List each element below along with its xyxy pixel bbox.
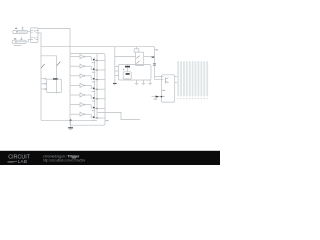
op-amp U6 output bubble (84, 104, 85, 105)
node bus junction 1 (96, 60, 98, 62)
label V1 (15, 28, 17, 29)
node bus junction 6 (96, 108, 98, 110)
wire bottom rail (41, 119, 97, 121)
wire block C to speaker upper (175, 76, 178, 78)
wire U7 output (85, 113, 91, 115)
block D body (47, 79, 62, 93)
transistor Q3 emitter arrow (93, 78, 95, 80)
wire staircase to right (97, 112, 140, 119)
op-amp U1 output bubble (84, 56, 85, 57)
label Q5 (92, 101, 95, 102)
block B body (119, 65, 152, 81)
symbol above V1 (22, 27, 24, 29)
block A switch marks (136, 56, 139, 64)
wire ground stem (70, 120, 72, 127)
op-amp U5 input wire (70, 94, 80, 96)
wire relay top pin to IC corner (38, 28, 70, 53)
relay K1 pins (31, 30, 39, 39)
wire Q5 base (91, 95, 92, 98)
op-amp U2 output bubble (84, 66, 85, 67)
label Q7 (92, 120, 95, 121)
transistor block C body (161, 75, 174, 102)
IC U0 body (70, 54, 105, 126)
wire Q3 base (91, 76, 92, 79)
op-amp U5 (80, 93, 84, 97)
capacitor C1 top plate (125, 66, 130, 68)
op-amp U6 (80, 103, 84, 107)
resistor R2 above block A (134, 49, 139, 52)
wire block A right (144, 56, 155, 58)
op-amp U3 (80, 74, 84, 78)
relay K1 body (31, 28, 39, 43)
wire U6 output (85, 104, 91, 106)
block D contact circle 3 (45, 88, 46, 89)
wire Q3 to bus (94, 79, 105, 81)
wire to block C upper pin (155, 76, 164, 78)
op-amp U1 (80, 55, 84, 59)
block D pin tick 3 (41, 88, 45, 90)
svg-text:LAB: LAB (18, 159, 27, 164)
op-amp U7 input wire (70, 113, 80, 115)
wire top rail branch (41, 46, 155, 48)
speaker SP1 hatched body (177, 61, 179, 97)
wire relay right pin long vertical (38, 33, 41, 120)
transistor Q2 emitter arrow (93, 68, 95, 70)
transistor Q9 symbol (165, 77, 168, 83)
wire Q7 to bus (94, 117, 105, 119)
arrow into block C (156, 96, 160, 98)
ground GND3 (135, 80, 138, 83)
wire Q6 to bus (94, 107, 105, 109)
transistor Q1 emitter arrow (93, 59, 95, 61)
switch SW1 blade (41, 64, 45, 68)
wire V2 internal (17, 41, 25, 43)
wire U3 output (85, 75, 91, 77)
footer credit text (43, 154, 86, 162)
node V2 terminal dot (15, 41, 16, 42)
op-amp U4 input wire (70, 84, 80, 86)
label Q8 (152, 56, 155, 58)
wire block A left (115, 56, 136, 58)
wire R2 stem (136, 47, 138, 49)
ground GND2 (113, 83, 117, 85)
op-amp U7 (80, 112, 84, 116)
op-amp U3 input wire (70, 75, 80, 77)
wire Q4 to bus (94, 88, 105, 90)
wire right vertical (154, 47, 156, 80)
svg-text:http://circuitlab.com/c/7ma59v: http://circuitlab.com/c/7ma59v (43, 158, 86, 162)
wire U1 output (85, 56, 91, 58)
block D pin tick 2 (41, 83, 45, 85)
wire V1 internal (18, 31, 26, 33)
wire U2 output (85, 65, 91, 67)
battery B1 frame (123, 72, 131, 79)
transistor Q6 emitter arrow (93, 107, 95, 109)
wire Q6 base (91, 105, 92, 108)
op-amp U4 (80, 83, 84, 87)
ground GND1 (68, 127, 73, 129)
label Q6 (92, 110, 95, 111)
node bus junction 5 (96, 98, 98, 100)
block A body (136, 52, 144, 65)
op-amp U3 output bubble (84, 75, 85, 76)
wire transistor chain vertical (93, 57, 95, 118)
wire into block C base (152, 96, 162, 98)
transistor Q4 emitter arrow (93, 87, 95, 89)
op-amp U5 output bubble (84, 94, 85, 95)
wire branch to switch column (41, 56, 57, 94)
wire C1 stem (127, 65, 129, 81)
op-amp U7 output bubble (84, 114, 85, 115)
wire Q2 base (91, 66, 92, 69)
label Q3 (92, 81, 95, 82)
op-amp U4 output bubble (84, 85, 85, 86)
symbol above V2 (20, 37, 22, 39)
CircuitLab logo (8, 154, 31, 164)
voltage source V2 (12, 40, 26, 43)
node bus junction 2 (96, 69, 98, 71)
label C2 (155, 49, 158, 50)
op-amp U1 input wire (70, 56, 80, 58)
node bus junction 7 (96, 117, 98, 119)
label R bottom (105, 120, 109, 121)
wire collector bus (96, 54, 98, 119)
wire Q7 base (91, 114, 92, 117)
ground GND4 (142, 80, 145, 83)
wire Q5 to bus (94, 98, 105, 100)
wire V1 to relay (27, 31, 30, 33)
label Q2 (92, 72, 95, 73)
ground GND5 (149, 80, 152, 83)
node bus junction 4 (96, 88, 98, 90)
label inside block C (162, 90, 164, 91)
wire Q4 base (91, 85, 92, 88)
switch SW2 blade (57, 62, 61, 66)
footer bar (0, 151, 220, 165)
label V2 (14, 38, 16, 39)
wire U5 output (85, 94, 91, 96)
wire Q1 base (91, 57, 92, 60)
battery B1 plate (126, 73, 130, 75)
label under V2 (14, 44, 22, 47)
block D pin tick 1 (41, 78, 45, 80)
wire Q1 to bus (94, 59, 105, 61)
node bus junction 3 (96, 79, 98, 81)
node V1 terminal dot (16, 31, 17, 32)
wire Q2 to bus (94, 69, 105, 71)
label Q4 (92, 91, 95, 92)
block B pin ticks (115, 66, 119, 75)
block D contact circle 2 (45, 83, 46, 84)
label under arrow (154, 99, 158, 100)
op-amp U6 input wire (70, 104, 80, 106)
capacitor C2 plates (153, 64, 156, 65)
wire vertical to block B (114, 47, 116, 83)
wire U4 output (85, 84, 91, 86)
transistor Q5 emitter arrow (93, 97, 95, 99)
wire V2 to relay (26, 40, 31, 42)
op-amp U2 input wire (70, 65, 80, 67)
label Q1 (92, 62, 95, 63)
block D contact circle 1 (45, 78, 46, 79)
tick right of column (57, 78, 58, 81)
label right of junction (162, 96, 164, 97)
wire to block C lower pin (155, 78, 164, 80)
op-amp U2 (80, 64, 84, 68)
transistor Q7 emitter arrow (93, 116, 95, 118)
node rail junction (70, 119, 72, 121)
plus mark C1 (123, 69, 125, 71)
wire block C to speaker lower (175, 82, 178, 84)
voltage source V1 (13, 30, 27, 33)
label block D (53, 78, 58, 80)
node block C junction (161, 96, 163, 98)
